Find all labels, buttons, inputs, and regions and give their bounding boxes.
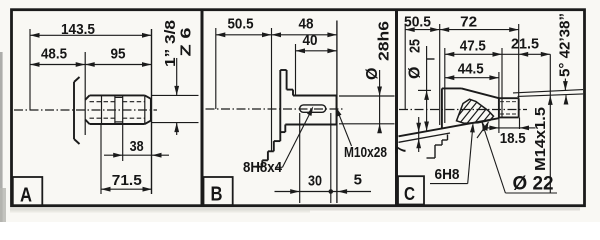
centerline A — [14, 109, 157, 111]
shaft B outline — [285, 96, 336, 125]
centerline C — [399, 109, 527, 111]
dimension line 40 — [296, 50, 337, 52]
key 6H8 outline — [457, 99, 494, 123]
extension line left (50.5) — [215, 28, 217, 109]
A 143.5 arrows — [30, 33, 40, 38]
extension 38 left — [122, 124, 124, 161]
B keyway leader arrow — [307, 106, 313, 116]
svg-text:28h6: 28h6 — [376, 21, 393, 61]
dimension line 30 / 5 — [275, 191, 372, 193]
page edge shading left — [0, 52, 3, 222]
extension line middle (50.5|72) — [439, 24, 441, 125]
extension line middle (48.5|95) / shaft face — [84, 52, 86, 135]
outer frame — [12, 10, 585, 206]
C 44.5 arrows — [445, 75, 455, 80]
C M14 line arrow — [548, 95, 553, 105]
extension 18.5 left — [498, 118, 500, 133]
extension line left (50.5) — [404, 24, 406, 110]
extension dia28 bottom — [339, 123, 395, 125]
svg-text:38: 38 — [130, 138, 144, 155]
dia25 extension top — [418, 89, 431, 91]
C dia22 leader arrow — [482, 121, 487, 131]
taper extension line upper — [513, 90, 583, 93]
C dia25 arrows — [424, 90, 429, 100]
C 47.5 arrows — [445, 52, 455, 57]
B 40 arrows — [296, 48, 306, 53]
dimension line 7 — [418, 117, 420, 152]
dia25 tick — [427, 58, 435, 60]
extension dia28 top — [339, 95, 395, 97]
label box B — [204, 177, 233, 205]
B 5 arrow right (outside) — [338, 189, 348, 194]
svg-text:1” 3/8: 1” 3/8 — [162, 20, 179, 67]
divider B|C — [395, 10, 398, 206]
centerline B — [206, 108, 346, 110]
B 30|5 dot — [329, 189, 334, 194]
divider A|B — [201, 10, 204, 206]
dimension line 71.5 — [101, 188, 152, 190]
A 38 arrows (outside) — [113, 153, 123, 158]
dimension line 50.5 / 72 — [405, 29, 519, 31]
housing break line — [74, 77, 80, 144]
C leader2 arrow — [483, 122, 488, 132]
svg-text:Ø 22: Ø 22 — [513, 174, 554, 195]
svg-text:50.5: 50.5 — [228, 16, 254, 33]
extension line 40 left — [295, 44, 297, 96]
svg-text:M14x1.5: M14x1.5 — [532, 107, 549, 171]
extension line 44.5 right / stub face — [498, 72, 500, 98]
svg-text:30: 30 — [308, 173, 322, 190]
dimension line 44.5 — [445, 77, 499, 79]
A 71.5 arrows — [101, 187, 111, 192]
svg-text:6H8: 6H8 — [435, 166, 460, 183]
C 6H8 leader arrow — [470, 123, 475, 133]
extension 30|5 — [330, 113, 332, 203]
C 7 arrows (outside) — [416, 123, 421, 133]
leader 8H8x4 — [275, 166, 283, 168]
svg-text:C: C — [404, 184, 415, 204]
svg-text:40: 40 — [303, 32, 318, 49]
svg-text:M10x28: M10x28 — [344, 144, 387, 161]
C taper angle arrows — [563, 81, 568, 91]
svg-text:5° 42’38”: 5° 42’38” — [557, 13, 574, 77]
dimension line 1"3/8 Z6 — [176, 58, 178, 95]
dimension line 143.5 — [30, 34, 152, 36]
label box A — [13, 177, 43, 206]
dimension line 50.5 / 48 — [216, 34, 337, 36]
C 18.5 arrows (outside) — [489, 126, 499, 131]
extension 18.5 right — [519, 118, 521, 130]
thread stub M14 — [499, 98, 519, 118]
staircase housing C — [427, 135, 448, 159]
thread dashed lines — [500, 102, 518, 114]
groove left edge — [114, 95, 116, 124]
B 48 arrows — [272, 32, 282, 37]
cone bottom contour (line A) — [399, 118, 499, 136]
svg-text:A: A — [20, 185, 32, 207]
extension lines spline dia — [152, 94, 199, 96]
spline root dashed lines — [90, 102, 145, 119]
svg-text:B: B — [211, 184, 223, 206]
C 72 arrows — [440, 27, 450, 32]
flange outline — [256, 70, 293, 167]
groove right edge — [122, 95, 124, 124]
bottom scan shadow — [10, 208, 580, 211]
leader dia22 — [505, 192, 557, 194]
extension line middle (50.5|48) — [271, 28, 273, 151]
svg-text:48.5: 48.5 — [41, 46, 67, 63]
svg-text:48: 48 — [299, 16, 314, 33]
extension line stub right — [518, 24, 520, 98]
extension 71.5 left — [100, 124, 102, 194]
leader 6H8 — [430, 183, 468, 185]
svg-text:7: 7 — [393, 146, 410, 154]
dia25 dimension line — [426, 46, 428, 131]
keyway slot — [300, 105, 326, 112]
leader M10x28 — [336, 108, 351, 147]
label box C — [398, 176, 424, 204]
A spline dia arrows (outside) — [174, 86, 179, 96]
svg-text:8H8x4: 8H8x4 — [243, 159, 283, 176]
svg-text:95: 95 — [111, 46, 126, 63]
svg-text:44.5: 44.5 — [458, 61, 484, 78]
A 95 arrows — [85, 62, 95, 67]
spline chamfer boundary — [101, 95, 103, 124]
extension line 47.5/44.5 left — [444, 48, 446, 123]
svg-text:21.5: 21.5 — [511, 36, 539, 53]
C 50.5 arrows — [405, 27, 415, 32]
leader second segment — [477, 122, 489, 138]
housing slant line (line B) — [399, 133, 451, 142]
groove recess lines — [115, 96, 123, 98]
svg-text:143.5: 143.5 — [61, 21, 95, 38]
taper extension line lower — [518, 94, 584, 97]
svg-text:Ø: Ø — [364, 68, 381, 80]
extension line 47.5 right — [501, 48, 503, 117]
shaft A outline — [85, 95, 151, 124]
C 21.5 arrows — [519, 52, 529, 57]
extension 30 left (keyway) — [299, 113, 301, 203]
extension line shaft end — [336, 21, 338, 204]
dimension line 38 — [104, 154, 169, 156]
svg-text:72: 72 — [460, 13, 477, 30]
extension line left (143.5/48.5) — [29, 29, 31, 110]
B dia28 arrows (outside) — [377, 87, 382, 97]
A 48.5 arrows — [30, 62, 40, 67]
svg-text:18.5: 18.5 — [500, 130, 526, 147]
svg-text:71.5: 71.5 — [112, 172, 142, 189]
extension/dimension line M14 col — [549, 54, 551, 193]
dimension line dia 28h6 — [379, 70, 381, 129]
dimension line 47.5 / 21.5 — [445, 53, 551, 55]
svg-text:5: 5 — [354, 172, 362, 189]
svg-text:47.5: 47.5 — [460, 38, 486, 55]
dimension line 48.5 / 95 — [30, 64, 152, 66]
B M10 leader arrow — [336, 107, 342, 117]
cone outline — [442, 88, 499, 128]
taper angle dimension line — [564, 79, 566, 91]
svg-text:50.5: 50.5 — [404, 13, 431, 30]
svg-text:Ø: Ø — [407, 67, 424, 79]
extension line right end of shaft — [151, 29, 153, 194]
svg-text:Z 6: Z 6 — [178, 27, 195, 56]
svg-text:25: 25 — [407, 39, 424, 53]
dimension line 18.5 — [488, 127, 499, 129]
B 50.5 arrows — [216, 32, 226, 37]
end chamfer line — [144, 95, 146, 124]
B 30 arrow left (outside) — [290, 189, 300, 194]
